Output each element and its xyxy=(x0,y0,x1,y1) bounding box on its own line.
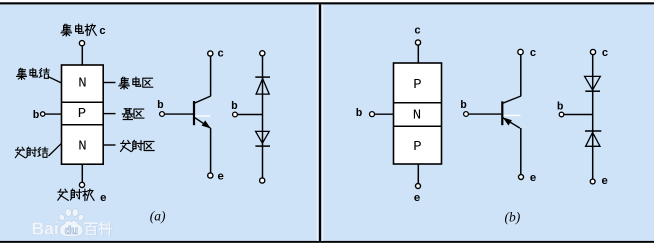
label 集电结 (collector junction) xyxy=(17,68,50,79)
PNP structure box xyxy=(394,63,442,164)
diode D1 cathode bar xyxy=(255,76,270,78)
divider highlight right xyxy=(321,4,323,241)
terminal circle c xyxy=(260,51,265,56)
wire collector to box xyxy=(417,45,419,63)
svg-text:(b): (b) xyxy=(505,209,521,224)
terminal circle e xyxy=(260,178,265,183)
border frame top black line xyxy=(0,2,654,4)
stub to 发射区 xyxy=(103,144,115,146)
svg-text:c: c xyxy=(602,48,609,60)
border frame top white strip xyxy=(0,0,654,2)
stub to 集电区 xyxy=(103,82,115,84)
svg-text:b: b xyxy=(157,100,164,112)
svg-text:c: c xyxy=(530,48,537,60)
terminal circle c of structure xyxy=(415,40,420,45)
wire c to diode xyxy=(592,55,594,179)
svg-text:b: b xyxy=(460,100,467,112)
terminal circle b xyxy=(464,112,469,117)
svg-text:N: N xyxy=(78,138,86,154)
svg-text:e: e xyxy=(100,193,107,205)
emitter diagonal xyxy=(503,118,520,128)
terminal circle e xyxy=(519,175,524,180)
svg-text:c: c xyxy=(99,26,106,38)
white highlight line xyxy=(195,115,210,117)
svg-text:c: c xyxy=(217,49,224,61)
svg-text:N: N xyxy=(78,76,86,92)
wire box to emitter terminal xyxy=(81,164,83,182)
base bar xyxy=(193,101,195,125)
emitter wire xyxy=(210,128,212,173)
base wire xyxy=(164,113,193,115)
svg-text:Bai: Bai xyxy=(32,218,59,238)
terminal circle b xyxy=(233,112,238,117)
svg-text:e: e xyxy=(217,172,224,184)
watermark paw icon xyxy=(58,208,85,236)
svg-text:du: du xyxy=(65,225,78,237)
terminal circle b xyxy=(160,112,165,117)
diode D3 cathode bar xyxy=(585,90,600,92)
center divider line xyxy=(319,4,321,241)
diode D4 triangle (pointing up) xyxy=(586,132,600,146)
junction line N/P (collector junction) xyxy=(62,101,104,103)
pointer line from 发射结 to box xyxy=(49,143,62,156)
svg-text:e: e xyxy=(601,176,608,188)
label 集电极 c (collector electrode) xyxy=(61,24,96,36)
terminal circle e of structure xyxy=(416,184,421,189)
svg-text:P: P xyxy=(78,106,86,122)
junction line P/N (emitter junction) xyxy=(62,124,104,126)
wire collector to box xyxy=(81,46,83,65)
stub to 基区 xyxy=(103,113,115,115)
terminal circle e xyxy=(208,173,213,178)
emitter diagonal xyxy=(195,118,211,129)
svg-text:(a): (a) xyxy=(150,208,166,223)
svg-text:N: N xyxy=(413,107,421,123)
emitter wire xyxy=(520,128,522,174)
label 发射结 (emitter junction) xyxy=(15,147,47,158)
base wire xyxy=(468,113,501,115)
junction line N/P xyxy=(394,125,442,127)
label 集电区 (collector region) xyxy=(119,77,153,89)
svg-text:c: c xyxy=(414,26,421,38)
wire b to box xyxy=(375,113,394,115)
label 基区 (base region) xyxy=(122,109,143,120)
collector wire xyxy=(520,55,522,96)
pointer line from 集电结 to box xyxy=(48,76,62,83)
wire b to box xyxy=(45,113,62,115)
svg-text:b: b xyxy=(356,108,363,120)
label 发射区 (emitter region) xyxy=(121,140,154,151)
white highlight line xyxy=(504,114,521,116)
wire c to diode xyxy=(262,56,264,178)
base wire to diode chain xyxy=(564,114,593,116)
terminal circle e xyxy=(590,179,595,184)
terminal circle c xyxy=(518,49,523,54)
svg-text:b: b xyxy=(557,101,564,113)
svg-text:e: e xyxy=(530,173,537,185)
svg-text:e: e xyxy=(414,193,421,205)
svg-text:P: P xyxy=(413,139,421,155)
wire box to emitter terminal xyxy=(417,164,419,183)
terminal circle e of structure xyxy=(79,182,84,187)
terminal circle b xyxy=(559,112,564,117)
border frame bottom black line xyxy=(0,241,654,243)
diode D2 triangle (pointing down) xyxy=(256,131,270,143)
diode D3 triangle (pointing down) xyxy=(585,76,601,90)
border frame bottom white strip xyxy=(0,243,654,245)
collector diagonal xyxy=(194,96,211,103)
NPN structure box xyxy=(62,65,104,164)
label 发射极 e (emitter electrode) xyxy=(58,189,94,200)
divider highlight left xyxy=(317,4,319,241)
base bar xyxy=(501,101,503,125)
terminal circle b of structure xyxy=(370,112,375,117)
diode D1 triangle (pointing up) xyxy=(256,79,269,95)
diode D2 cathode bar xyxy=(255,145,270,147)
terminal circle b of structure xyxy=(41,112,45,116)
collector diagonal xyxy=(503,96,521,103)
emitter arrowhead (pointing into bar) xyxy=(503,117,512,125)
svg-text:b: b xyxy=(231,101,238,113)
terminal circle c xyxy=(208,51,213,56)
svg-text:P: P xyxy=(413,77,421,93)
collector wire xyxy=(210,56,212,96)
junction line P/N xyxy=(394,102,442,104)
terminal circle c xyxy=(590,49,595,54)
base wire to diode chain xyxy=(237,114,262,116)
watermark 百科 xyxy=(86,223,112,235)
emitter arrowhead xyxy=(202,120,211,128)
diode D4 cathode bar xyxy=(585,130,601,132)
svg-text:b: b xyxy=(33,110,40,122)
terminal circle c of structure xyxy=(79,41,84,46)
